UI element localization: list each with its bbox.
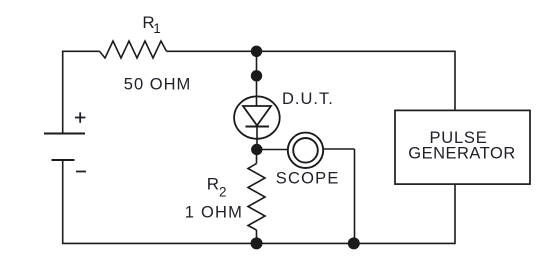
scope probe connector (288, 133, 323, 168)
wire: scope drop to bottom rail (354, 149, 356, 243)
wire: D.U.T. junction down to R2 (256, 150, 258, 164)
wire: scope to right drop (323, 148, 354, 150)
label PULSE GENERATOR (408, 129, 516, 163)
label D.U.T. (282, 90, 334, 108)
label 50 OHM (124, 75, 191, 93)
junction node R2 at bottom rail (251, 237, 263, 249)
junction node scope drop at bottom rail (348, 237, 360, 249)
wire: R2 to bottom rail (256, 230, 258, 243)
D.U.T. diode (device under test) (234, 96, 280, 149)
svg-text:D.U.T.: D.U.T. (282, 90, 334, 108)
battery (44, 134, 85, 161)
wire: top rail down to D.U.T. anode (256, 51, 258, 106)
svg-text:50 OHM: 50 OHM (124, 75, 191, 93)
resistor R1 (100, 41, 167, 58)
label R1 (142, 13, 160, 36)
wire: top rail left segment (battery + to R1) (63, 51, 100, 133)
label SCOPE (276, 169, 340, 187)
svg-text:1: 1 (153, 21, 161, 36)
svg-text:GENERATOR: GENERATOR (408, 145, 516, 163)
wire: D.U.T. cathode to scope (257, 149, 288, 151)
resistor R2 (248, 164, 265, 231)
pulse generator box (395, 110, 530, 184)
wire: top rail from R1 to pulse generator (167, 51, 456, 110)
label - (76, 171, 86, 173)
label + (75, 112, 85, 123)
junction node at D.U.T. cathode / scope / R2 (251, 144, 262, 155)
svg-text:2: 2 (219, 185, 227, 200)
label R2 (207, 174, 227, 199)
label 1 OHM (185, 204, 243, 222)
svg-text:SCOPE: SCOPE (276, 169, 340, 187)
svg-text:R: R (207, 174, 219, 193)
junction node at top rail and D.U.T. branch (251, 46, 262, 57)
junction node above D.U.T. (251, 70, 262, 81)
svg-text:1 OHM: 1 OHM (185, 204, 243, 222)
wire: battery - to bottom rail, bottom rail, and pulse generator bottom lead (63, 160, 455, 243)
